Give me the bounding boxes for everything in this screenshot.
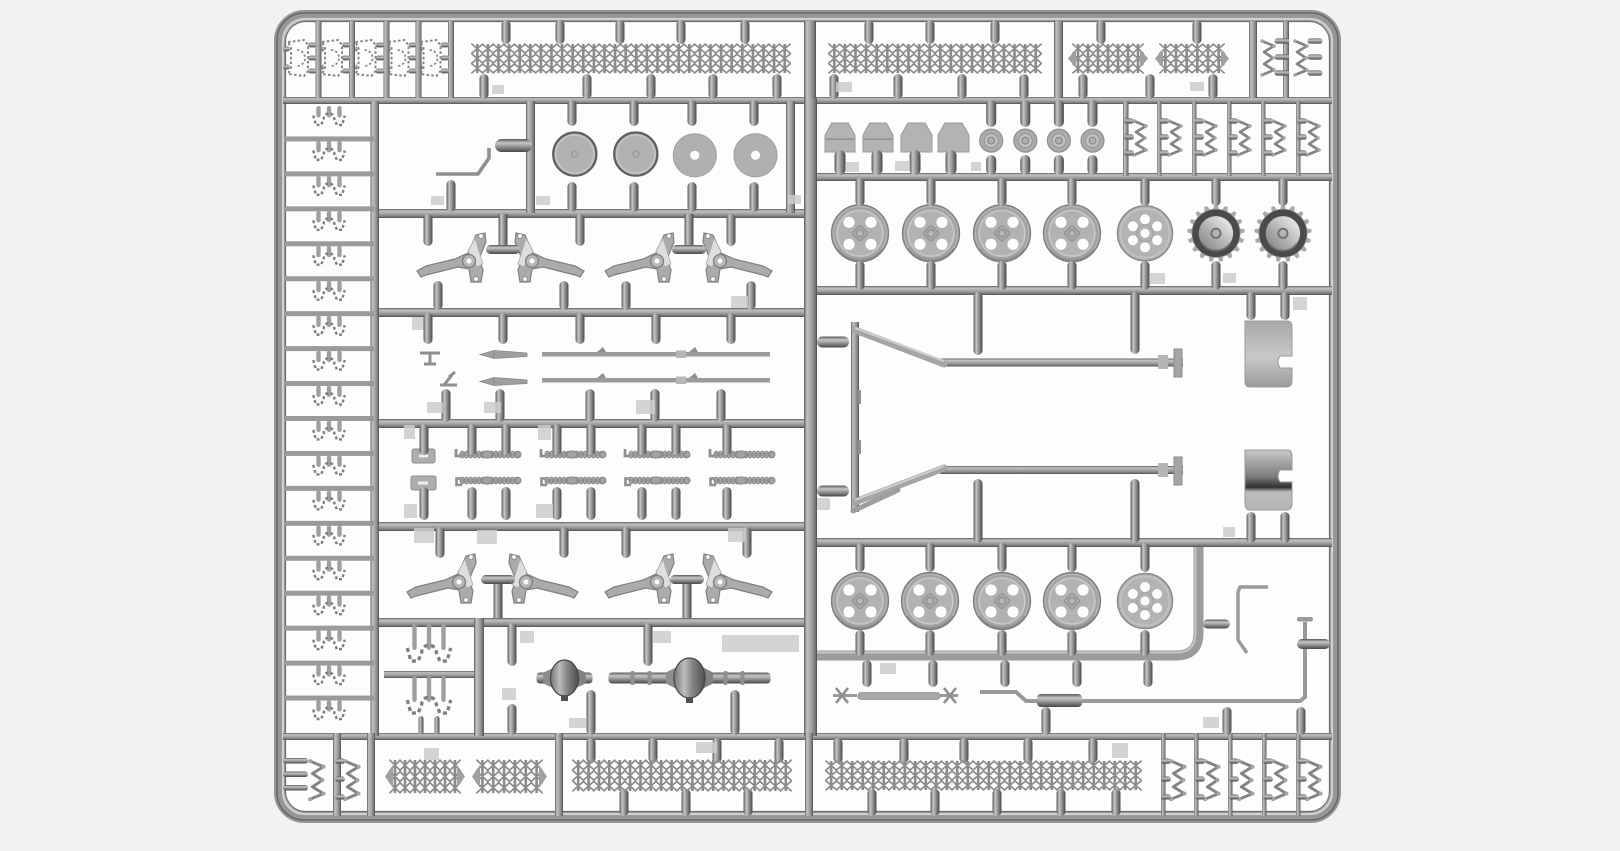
- ejector tab: [1150, 273, 1165, 284]
- gate peg above bottom rail: [1297, 707, 1306, 735]
- gate peg screws row bottom: [553, 487, 562, 520]
- gate peg above wheel: [1068, 178, 1077, 206]
- stub from right frame: [1297, 639, 1330, 649]
- gate peg axle cell top: [508, 623, 517, 666]
- track link L10: [316, 421, 320, 433]
- ejector tab: [520, 631, 534, 643]
- track run T3a: [1078, 44, 1138, 73]
- track link top row 3: [355, 47, 358, 52]
- screw rod B4: [714, 479, 774, 483]
- ejector tab: [731, 296, 748, 308]
- ejector tab: [484, 402, 501, 413]
- gate peg screws row bottom: [723, 487, 732, 520]
- gate peg arms row lower: [747, 281, 756, 310]
- bottom row spring cell rail: [1228, 733, 1233, 816]
- gate peg on rail R2: [894, 74, 903, 99]
- track run T3b: [1165, 44, 1218, 73]
- gate peg bottom row top: [1089, 738, 1098, 763]
- gate peg above wheel: [927, 178, 936, 206]
- suspension arm B1: [407, 554, 476, 603]
- ejector tab: [414, 528, 434, 543]
- gate peg from top tube: [677, 20, 686, 44]
- gate peg below roller: [1088, 155, 1098, 175]
- track run B3: [578, 760, 786, 791]
- track run T2: [834, 44, 1035, 73]
- gate peg screws row top: [672, 424, 681, 455]
- bracket block 2: [863, 123, 893, 152]
- left column cell rail 15: [285, 626, 374, 631]
- strut upper: [855, 330, 944, 364]
- left column right rail: [371, 101, 380, 736]
- mudguard part 1: [1245, 321, 1292, 387]
- ejector tab: [1293, 297, 1307, 310]
- drive sprocket: [1254, 205, 1311, 262]
- spring part row2 5: [1273, 121, 1285, 155]
- rail R6 with elbow: [815, 547, 1199, 656]
- gate peg arms row: [576, 214, 585, 246]
- ejector tab: [492, 85, 504, 94]
- gate peg rods row bottom: [496, 389, 505, 422]
- ejector tab: [536, 504, 553, 518]
- thin L pipe part: [1238, 587, 1268, 653]
- screw rod A2: [545, 453, 605, 457]
- ejector tab: [895, 161, 910, 171]
- gate peg from top tube: [616, 20, 625, 44]
- gate peg screws row top: [587, 424, 596, 455]
- three stub pegs bottom left: [283, 758, 308, 764]
- long gate peg row4 bottom b: [1131, 479, 1140, 543]
- left column cell rail 2: [285, 171, 374, 176]
- screw rod B3: [629, 479, 689, 483]
- road wheel: [903, 205, 960, 262]
- track link L5: [316, 246, 320, 258]
- gate peg from top tube: [991, 20, 1000, 44]
- gate peg above wheel: [1141, 178, 1150, 206]
- gate peg near mudguard: [1281, 292, 1290, 320]
- rail R4: [812, 286, 1332, 295]
- short track run B1: [395, 760, 455, 793]
- screw rod B2: [545, 479, 605, 483]
- gate peg bottom row bottom: [1057, 789, 1066, 816]
- road wheel: [832, 573, 889, 630]
- ejector tab: [431, 196, 444, 205]
- gate peg below rail R6: [929, 660, 938, 687]
- gate peg below disc: [688, 182, 697, 212]
- tie rod part: [858, 693, 940, 700]
- gate peg on rail R2: [709, 74, 718, 99]
- bottom row spring cell rail: [1161, 733, 1166, 816]
- gate peg screws row top: [420, 424, 429, 455]
- small angled part: [440, 372, 457, 385]
- left column cell rail 17: [285, 696, 374, 701]
- bent rod cell right rail: [526, 101, 535, 213]
- ejector tab: [569, 718, 586, 728]
- axle with differential short: [537, 660, 593, 701]
- gate peg bent rod cell: [447, 180, 456, 212]
- left column cell rail 11: [285, 486, 374, 491]
- track link top row 4: [389, 47, 391, 52]
- slotted plate 2: [411, 476, 436, 490]
- rail R2 full width: [283, 97, 1332, 104]
- top row rail: [1283, 21, 1289, 98]
- gate peg above disc: [688, 100, 697, 126]
- track link top row 1: [283, 47, 290, 52]
- gate peg on rail R2: [830, 74, 839, 99]
- gate peg screws row top: [502, 424, 511, 455]
- ejector tab: [502, 688, 516, 700]
- track link L3: [316, 176, 320, 188]
- gate peg arms row 2: [743, 527, 752, 558]
- gate peg from top tube: [1097, 20, 1106, 44]
- gate peg axle cell bottom: [587, 690, 596, 735]
- suspension arm B3: [605, 554, 674, 603]
- rail L5: [379, 419, 812, 428]
- suspension arm A2: [515, 233, 584, 282]
- spring part row2 3: [1204, 121, 1216, 155]
- gate peg above roller: [1054, 100, 1064, 127]
- gate peg on rail R2: [1079, 74, 1088, 99]
- gate peg below wheel: [1279, 261, 1288, 290]
- gate peg above wheel: [1279, 178, 1288, 206]
- slotted plate 1: [412, 449, 435, 463]
- gate peg on rail R2: [958, 74, 967, 99]
- gate peg below wheel row2: [1068, 630, 1077, 656]
- row2 spring cell rail: [1296, 101, 1301, 176]
- row2 spring cell rail: [1227, 101, 1232, 176]
- left column cell rail 10: [285, 451, 374, 456]
- T gate arms row 2b: [683, 580, 692, 618]
- left column cell rail 8: [285, 381, 374, 386]
- gate peg below block: [835, 150, 846, 175]
- road wheel: [832, 205, 889, 262]
- ejector tab: [404, 425, 415, 439]
- row2 spring cell rail: [1261, 101, 1266, 176]
- spring part bottom row 1: [1171, 761, 1184, 799]
- track link L9: [316, 386, 320, 398]
- gate peg above bottom rail: [1223, 707, 1232, 735]
- gate peg screws row bottom: [672, 487, 681, 520]
- left column cell rail 13: [285, 556, 374, 561]
- spring part top row: [1262, 41, 1274, 75]
- ejector tab: [404, 504, 417, 518]
- left column cell rail 5: [285, 276, 374, 281]
- track link L12: [316, 490, 320, 502]
- track link L13: [316, 525, 320, 537]
- gate peg below roller: [1054, 155, 1064, 175]
- small bracket part: [420, 353, 440, 364]
- stub from elbow rail: [1203, 620, 1230, 629]
- ejector tab: [846, 162, 859, 172]
- gate peg bottom row top: [649, 738, 658, 763]
- road wheel: [1044, 205, 1101, 262]
- road wheel: [902, 573, 959, 630]
- axle with differential long: [609, 658, 771, 703]
- gate peg bottom row top: [713, 738, 722, 763]
- top row cell rail 5: [448, 21, 454, 98]
- bottom row spring cell rail: [1296, 733, 1301, 816]
- gate peg above disc: [750, 100, 759, 126]
- gate peg below rail R6: [1073, 660, 1082, 687]
- gate peg arms row: [424, 214, 433, 246]
- gate peg above wheel row2: [998, 543, 1007, 572]
- gate peg above wheel: [998, 178, 1007, 206]
- gate peg above roller: [1088, 100, 1098, 127]
- return roller: [1014, 129, 1037, 152]
- road wheel: [974, 573, 1031, 630]
- spring part bottom row 2: [1205, 761, 1218, 799]
- track link L18: [316, 700, 320, 712]
- gate peg above wheel row2: [856, 543, 865, 572]
- disc cell right rail: [786, 101, 795, 213]
- drive sprocket: [1187, 205, 1244, 262]
- gate peg below rail R6: [1001, 660, 1010, 687]
- gate peg arms row lower: [560, 281, 569, 310]
- gate peg on rail R2: [647, 74, 656, 99]
- suspension arm A3: [605, 233, 674, 282]
- rail L6: [379, 522, 812, 531]
- gate peg below wheel row2: [856, 630, 865, 656]
- gate peg on rail R2: [1020, 74, 1029, 99]
- bracket block 1: [825, 123, 855, 152]
- row2 rail: [1123, 101, 1129, 176]
- gate peg axle cell top: [644, 623, 653, 666]
- gate peg bottom row bottom: [1112, 789, 1121, 816]
- wheel disc 1: [553, 133, 596, 176]
- track link L17: [316, 665, 320, 677]
- ejector tab: [1223, 527, 1235, 537]
- return roller: [980, 129, 1003, 152]
- gate peg below wheel row2: [998, 630, 1007, 656]
- gate peg bottom row top: [834, 738, 843, 763]
- return roller: [1047, 129, 1070, 152]
- track run T1: [477, 44, 784, 73]
- ejector tab: [477, 530, 497, 544]
- gate peg below wheel: [998, 261, 1007, 290]
- ejector tab: [1112, 743, 1128, 758]
- track link L4: [316, 211, 320, 223]
- track link top row 2: [322, 47, 325, 52]
- bracket block 4: [938, 123, 969, 152]
- gate peg on rail R2: [1146, 74, 1155, 99]
- gate peg rods row bottom: [442, 389, 451, 422]
- bracket block 3: [901, 123, 932, 152]
- rail L3: [379, 209, 812, 218]
- gate peg below roller: [1020, 155, 1030, 175]
- gate peg below disc: [568, 182, 577, 212]
- ejector tab: [728, 528, 745, 542]
- spring part bottom left B: [345, 761, 358, 799]
- top row rail right of track 2: [1054, 21, 1063, 98]
- spring part bottom left A: [310, 761, 323, 799]
- suspension arm A1: [417, 233, 486, 282]
- left column cell rail 1: [285, 136, 374, 141]
- big track link 2: [412, 676, 416, 702]
- gate peg arms row lower: [622, 281, 631, 310]
- long gate peg row4 top b: [1131, 292, 1140, 354]
- gate peg below disc: [750, 182, 759, 212]
- gate peg below rail R6: [863, 660, 872, 687]
- suspension arm A4: [703, 233, 772, 282]
- ejector tab: [653, 631, 671, 643]
- bottom row spring cell rail: [1194, 733, 1199, 816]
- left column cell rail 6: [285, 311, 374, 316]
- gate peg below block: [946, 150, 957, 175]
- gate peg on rail R2: [773, 74, 782, 99]
- track link L2: [316, 141, 320, 153]
- long gate peg row4 bottom a: [974, 479, 983, 543]
- left column cell rail 16: [285, 661, 374, 666]
- gate peg above disc: [630, 100, 639, 126]
- T gate arms row 1a: [499, 214, 508, 249]
- gate peg from top tube: [502, 20, 511, 44]
- T gate arms row 1b: [685, 214, 694, 249]
- track link L15: [316, 595, 320, 607]
- gate peg below roller: [986, 155, 996, 175]
- spring part bottom row 5: [1307, 761, 1320, 799]
- spring part row2 6: [1307, 121, 1319, 155]
- spring part top right corner: [1295, 41, 1307, 75]
- road wheel: [1044, 573, 1101, 630]
- small peg below link: [419, 716, 424, 735]
- gate peg bottom row top: [900, 738, 909, 763]
- gate peg rods row bottom: [651, 389, 660, 422]
- gate peg rods row bottom: [586, 389, 595, 422]
- gate peg below block: [872, 150, 883, 175]
- gate peg below disc: [630, 182, 639, 212]
- mudguard part 2: [1245, 450, 1292, 510]
- spring part row2 4: [1238, 121, 1250, 155]
- bottom row spring cell rail: [1262, 733, 1267, 816]
- gate peg rods row top: [727, 313, 736, 344]
- track link L16: [316, 630, 320, 642]
- spring part bottom row 4: [1273, 761, 1286, 799]
- long rod A: [542, 352, 770, 357]
- track link L6: [316, 281, 320, 293]
- screw rod B1: [460, 479, 520, 483]
- gate peg bottom row bottom: [931, 789, 940, 816]
- gate peg screws row top: [723, 424, 732, 455]
- track link L8: [316, 351, 320, 363]
- gate peg above bottom rail: [1042, 707, 1051, 735]
- gate peg below wheel row2: [926, 630, 935, 656]
- gate peg arms row 2: [560, 527, 569, 558]
- screw rod A1: [460, 453, 520, 457]
- left column cell rail 9: [285, 416, 374, 421]
- gate peg from top tube: [865, 20, 874, 44]
- gate peg below wheel: [927, 261, 936, 290]
- sprue outer frame tube: [280, 16, 1336, 818]
- gate peg from top tube: [1193, 20, 1202, 44]
- gate peg on rail R2: [1209, 74, 1218, 99]
- stub peg from spine upper: [817, 337, 849, 348]
- ejector tab: [538, 425, 551, 440]
- gate peg screws row top: [468, 424, 477, 455]
- track link L11: [316, 455, 320, 467]
- gate peg screws row top: [638, 424, 647, 455]
- bottom row rail: [333, 733, 341, 816]
- gate peg above wheel: [1212, 178, 1221, 206]
- ejector tab: [536, 196, 550, 205]
- ejector tab: [1190, 82, 1204, 91]
- top row rail: [1249, 21, 1257, 98]
- idler wheel: [1118, 574, 1173, 629]
- gate peg bottom row top: [960, 738, 969, 763]
- pointed rod A: [480, 351, 527, 359]
- stub peg from spine lower: [817, 486, 849, 497]
- wheel disc 2: [614, 133, 657, 176]
- gate peg above disc: [568, 100, 577, 126]
- gate peg near mudguard: [1247, 292, 1256, 320]
- gate peg bottom row top: [1024, 738, 1033, 763]
- top row cell rail 4: [416, 21, 422, 98]
- gate peg below wheel: [1141, 261, 1150, 290]
- bottom row top rail: [283, 733, 1332, 740]
- gate peg on rail R2: [583, 74, 592, 99]
- bottom row rail: [367, 733, 375, 816]
- rail R3: [812, 173, 1332, 181]
- rail L4: [379, 308, 812, 317]
- gate peg screws row bottom: [638, 487, 647, 520]
- gate peg rods row top: [424, 313, 433, 344]
- gate peg bottom row top: [775, 738, 784, 763]
- ejector tab: [817, 498, 830, 510]
- gate peg from top tube: [741, 20, 750, 44]
- left column cell rail 3: [285, 206, 374, 211]
- gate peg above wheel: [856, 178, 865, 206]
- track link L7: [316, 316, 320, 328]
- gate peg axle cell bottom: [731, 690, 740, 735]
- left column cell rail 12: [285, 521, 374, 526]
- gate peg above wheel row2: [1141, 543, 1150, 572]
- bent rod part: [436, 148, 489, 174]
- gate peg bottom row top: [587, 738, 596, 763]
- road wheel: [974, 205, 1031, 262]
- gate peg arms row: [727, 214, 736, 246]
- ejector tab: [880, 663, 896, 674]
- gate peg on rail R2: [480, 74, 489, 99]
- top row cell rail 2: [349, 21, 355, 98]
- gate peg below wheel: [1212, 261, 1221, 290]
- gate peg above wheel row2: [926, 543, 935, 572]
- track link top row 5: [422, 47, 423, 52]
- pointed rod B: [480, 378, 527, 386]
- gate peg screws row bottom: [587, 487, 596, 520]
- large ejector tab: [722, 635, 799, 652]
- track link L1: [316, 106, 320, 118]
- small peg below link: [435, 716, 440, 735]
- ejector tab: [836, 82, 852, 92]
- chassis rail lower: [940, 466, 1183, 474]
- track link L14: [316, 560, 320, 572]
- left column cell rail 14: [285, 591, 374, 596]
- suspension arm B4: [703, 554, 772, 603]
- gate peg arms row 2: [622, 527, 631, 558]
- sprue interior background: [277, 13, 1338, 820]
- row2 spring cell rail: [1192, 101, 1197, 176]
- short track run B2: [482, 760, 536, 793]
- top row centre rail: [804, 21, 816, 98]
- gate peg bottom row bottom: [620, 789, 629, 816]
- wheel disc 4: [734, 134, 777, 177]
- exhaust pipe part: [980, 622, 1305, 701]
- ejector tab: [424, 748, 439, 760]
- gate peg arms row lower: [434, 281, 443, 310]
- strut lower: [855, 468, 944, 502]
- big track link 1: [412, 623, 416, 650]
- gate peg bottom row bottom: [993, 789, 1002, 816]
- spring part bottom row 3: [1239, 761, 1252, 799]
- bottom row rail: [805, 733, 813, 816]
